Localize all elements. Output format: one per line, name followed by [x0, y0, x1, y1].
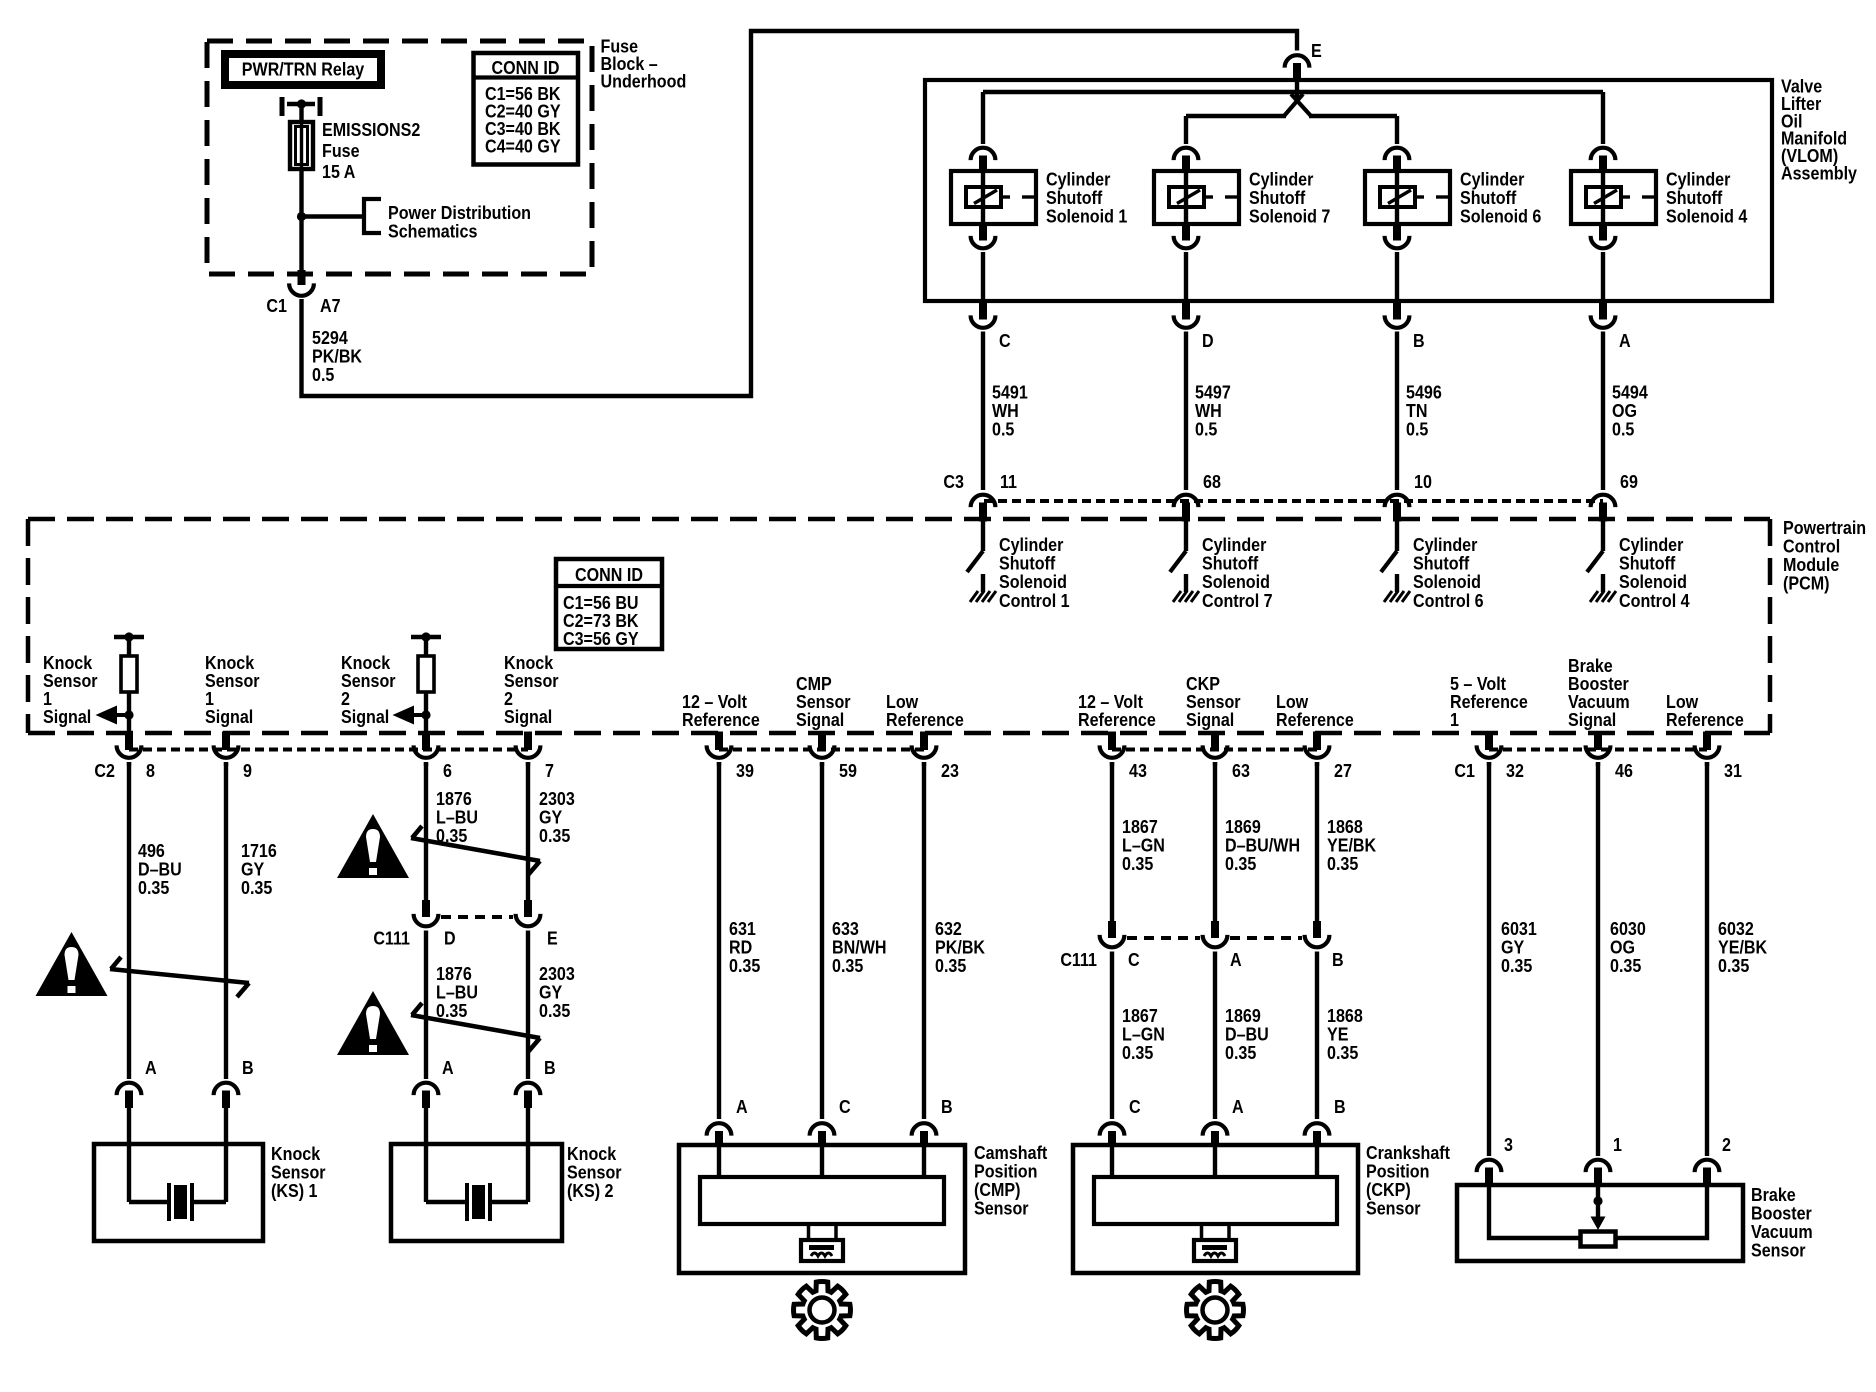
svg-text:0.35: 0.35 [539, 1000, 571, 1021]
svg-text:EMISSIONS2: EMISSIONS2 [322, 119, 420, 140]
svg-text:C3: C3 [943, 471, 964, 492]
svg-text:Sensor: Sensor [1751, 1239, 1806, 1260]
svg-text:Schematics: Schematics [388, 220, 477, 241]
svg-text:0.35: 0.35 [1610, 955, 1642, 976]
svg-text:C: C [839, 1096, 851, 1117]
svg-text:Signal: Signal [43, 706, 91, 727]
svg-text:Solenoid 4: Solenoid 4 [1666, 205, 1748, 226]
svg-text:Sensor: Sensor [974, 1197, 1029, 1218]
svg-text:0.5: 0.5 [992, 418, 1015, 439]
svg-text:Solenoid 1: Solenoid 1 [1046, 205, 1128, 226]
svg-text:0.35: 0.35 [539, 825, 571, 846]
svg-text:Reference: Reference [1666, 709, 1744, 730]
svg-text:31: 31 [1724, 760, 1742, 781]
svg-text:0.5: 0.5 [1612, 418, 1635, 439]
svg-text:C3=56 GY: C3=56 GY [563, 628, 639, 649]
svg-text:B: B [242, 1057, 254, 1078]
svg-text:0.35: 0.35 [1501, 955, 1533, 976]
svg-text:Signal: Signal [341, 706, 389, 727]
svg-text:C111: C111 [373, 927, 410, 948]
svg-text:1: 1 [1613, 1134, 1622, 1155]
svg-text:Signal: Signal [504, 706, 552, 727]
svg-text:6: 6 [443, 760, 452, 781]
svg-text:11: 11 [1000, 471, 1017, 492]
svg-text:E: E [547, 927, 558, 948]
svg-text:C1: C1 [1454, 760, 1475, 781]
svg-text:32: 32 [1506, 760, 1524, 781]
svg-text:C111: C111 [1060, 949, 1097, 970]
svg-text:Control 4: Control 4 [1619, 590, 1690, 611]
svg-text:Fuse: Fuse [322, 140, 360, 161]
svg-text:7: 7 [545, 760, 554, 781]
svg-text:0.35: 0.35 [832, 955, 864, 976]
svg-text:9: 9 [243, 760, 252, 781]
svg-text:0.35: 0.35 [1122, 853, 1154, 874]
svg-text:Solenoid 7: Solenoid 7 [1249, 205, 1330, 226]
svg-text:0.35: 0.35 [1122, 1042, 1154, 1063]
svg-text:63: 63 [1232, 760, 1250, 781]
svg-text:Control 6: Control 6 [1413, 590, 1484, 611]
svg-text:(KS) 2: (KS) 2 [567, 1180, 613, 1201]
svg-text:27: 27 [1334, 760, 1352, 781]
svg-text:D: D [444, 927, 456, 948]
svg-text:A: A [736, 1096, 748, 1117]
svg-text:0.5: 0.5 [312, 364, 335, 385]
svg-text:A: A [1232, 1096, 1244, 1117]
svg-text:B: B [1332, 949, 1344, 970]
svg-text:CONN ID: CONN ID [492, 57, 560, 78]
svg-text:A: A [1619, 330, 1631, 351]
svg-text:B: B [1334, 1096, 1346, 1117]
svg-text:Signal: Signal [796, 709, 844, 730]
svg-text:0.35: 0.35 [241, 877, 273, 898]
svg-text:Signal: Signal [1568, 709, 1616, 730]
svg-text:A: A [442, 1057, 454, 1078]
svg-text:Control 1: Control 1 [999, 590, 1070, 611]
svg-text:0.5: 0.5 [1406, 418, 1429, 439]
svg-text:2: 2 [1722, 1134, 1731, 1155]
svg-text:0.5: 0.5 [1195, 418, 1218, 439]
svg-text:C: C [999, 330, 1011, 351]
svg-text:Assembly: Assembly [1781, 162, 1857, 183]
svg-text:0.35: 0.35 [1225, 1042, 1257, 1063]
svg-text:0.35: 0.35 [1718, 955, 1750, 976]
svg-text:Control 7: Control 7 [1202, 590, 1273, 611]
svg-text:Sensor: Sensor [1366, 1197, 1421, 1218]
svg-text:D: D [1202, 330, 1214, 351]
svg-text:Underhood: Underhood [601, 70, 687, 91]
svg-text:C: C [1128, 949, 1140, 970]
svg-text:8: 8 [146, 760, 155, 781]
svg-text:(PCM): (PCM) [1783, 572, 1829, 593]
svg-text:Solenoid 6: Solenoid 6 [1460, 205, 1542, 226]
svg-text:C2: C2 [94, 760, 115, 781]
svg-text:0.35: 0.35 [1327, 853, 1359, 874]
svg-text:C: C [1129, 1096, 1141, 1117]
svg-text:Reference: Reference [1450, 691, 1528, 712]
svg-text:15 A: 15 A [322, 161, 356, 182]
svg-text:1: 1 [1450, 709, 1459, 730]
svg-text:(KS) 1: (KS) 1 [271, 1180, 318, 1201]
svg-text:23: 23 [941, 760, 959, 781]
svg-text:Signal: Signal [205, 706, 253, 727]
svg-text:46: 46 [1615, 760, 1633, 781]
svg-text:59: 59 [839, 760, 857, 781]
svg-text:0.35: 0.35 [935, 955, 967, 976]
svg-text:A7: A7 [320, 295, 341, 316]
svg-text:CONN ID: CONN ID [575, 564, 643, 585]
svg-text:Reference: Reference [682, 709, 760, 730]
svg-text:0.35: 0.35 [1225, 853, 1257, 874]
svg-text:39: 39 [736, 760, 754, 781]
svg-text:PWR/TRN Relay: PWR/TRN Relay [242, 58, 365, 79]
svg-text:0.35: 0.35 [1327, 1042, 1359, 1063]
svg-text:Reference: Reference [886, 709, 964, 730]
svg-text:0.35: 0.35 [138, 877, 170, 898]
svg-text:C4=40 GY: C4=40 GY [485, 135, 561, 156]
svg-text:A: A [1230, 949, 1242, 970]
svg-text:43: 43 [1129, 760, 1147, 781]
svg-text:B: B [941, 1096, 953, 1117]
svg-text:A: A [145, 1057, 157, 1078]
svg-text:B: B [544, 1057, 556, 1078]
svg-text:B: B [1413, 330, 1425, 351]
svg-text:69: 69 [1620, 471, 1638, 492]
svg-text:0.35: 0.35 [729, 955, 761, 976]
svg-text:10: 10 [1414, 471, 1432, 492]
svg-text:Signal: Signal [1186, 709, 1234, 730]
svg-text:C1: C1 [266, 295, 287, 316]
svg-text:Reference: Reference [1276, 709, 1354, 730]
svg-text:E: E [1311, 40, 1322, 61]
svg-text:3: 3 [1504, 1134, 1513, 1155]
svg-text:68: 68 [1203, 471, 1221, 492]
svg-text:Reference: Reference [1078, 709, 1156, 730]
